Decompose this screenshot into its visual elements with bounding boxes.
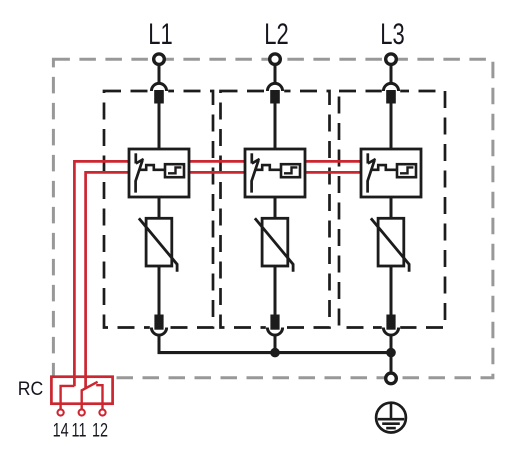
node L2 terminal (270, 54, 281, 65)
wire plug contact to PE bus (module 1) (158, 335, 161, 354)
pin label 12 (92, 420, 108, 441)
svg-text:11: 11 (72, 420, 87, 441)
wire PE bus to PE terminal (390, 353, 393, 374)
svg-text:RC: RC (18, 377, 43, 399)
module 1 compartment (104, 91, 213, 328)
plug-in contact bottom (module 2) (266, 315, 284, 336)
pin label 11 (72, 420, 87, 441)
module 3 compartment (339, 91, 445, 328)
RC contact 14 conductor (61, 386, 75, 404)
junction: L2 branch on PE bus (270, 348, 280, 358)
wire varistor to plug contact (module 3) (390, 266, 393, 315)
junction: L3 branch on PE bus (386, 348, 396, 358)
wire varistor to plug contact (module 2) (274, 266, 277, 315)
wire disconnector to varistor (module 3) (390, 197, 393, 219)
varistor (module 3) (371, 218, 409, 271)
wire red line1 into RC box (73, 376, 76, 387)
svg-text:L3: L3 (380, 19, 404, 51)
module 2 compartment (221, 91, 330, 328)
wire disconnector to varistor (module 1) (158, 197, 161, 219)
wire L2 terminal to plug contact (274, 64, 277, 84)
pin 14 stem and terminal (58, 404, 64, 416)
wire plug contact to disconnector (module 2) (274, 104, 277, 151)
wire disconnector to varistor (module 2) (274, 197, 277, 219)
label L3 (380, 19, 404, 51)
thermal disconnector with status indicator (module 1) (129, 149, 189, 197)
pin 12 stem and terminal (99, 404, 105, 416)
node L1 terminal (154, 54, 165, 65)
wire varistor to plug contact (module 1) (158, 266, 161, 315)
svg-text:L2: L2 (264, 19, 288, 51)
plug-in contact bottom (module 1) (150, 315, 168, 336)
varistor (module 2) (255, 218, 293, 271)
plug-in contact top (module 2) (266, 83, 284, 103)
wire: remote-signalling line 2 (lower red) (86, 172, 390, 388)
wire: remote-signalling line 1 (upper red) (74, 161, 390, 386)
pin label 14 (53, 420, 69, 441)
thermal disconnector with status indicator (module 3) (361, 149, 421, 197)
label RC (18, 377, 43, 399)
wire plug contact to PE bus (module 3) (390, 335, 393, 354)
label L2 (264, 19, 288, 51)
node PE terminal (386, 373, 397, 384)
wire L1 terminal to plug contact (158, 64, 161, 84)
svg-text:12: 12 (92, 420, 108, 441)
RC contact 11 common with blade (82, 382, 98, 404)
pin 11 stem and terminal (79, 404, 85, 416)
varistor (module 1) (139, 218, 177, 271)
wire plug contact to disconnector (module 3) (390, 104, 393, 151)
thermal disconnector with status indicator (module 2) (245, 149, 305, 197)
protective earth symbol (376, 403, 406, 433)
plug-in contact top (module 1) (150, 83, 168, 103)
wire plug contact to PE bus (module 2) (274, 335, 277, 354)
node L3 terminal (386, 54, 397, 65)
RC contact 12 conductor (96, 385, 102, 404)
wire L3 terminal to plug contact (390, 64, 393, 84)
svg-text:L1: L1 (148, 19, 172, 51)
wire: common PE bus (158, 351, 391, 354)
wire red line2 into RC box (84, 376, 87, 389)
label L1 (148, 19, 172, 51)
svg-text:14: 14 (53, 420, 69, 441)
plug-in contact top (module 3) (382, 83, 400, 103)
wire plug contact to disconnector (module 1) (158, 104, 161, 151)
remote signalling contact RC (51, 377, 112, 404)
plug-in contact bottom (module 3) (382, 315, 400, 336)
enclosure outline (53, 59, 493, 378)
